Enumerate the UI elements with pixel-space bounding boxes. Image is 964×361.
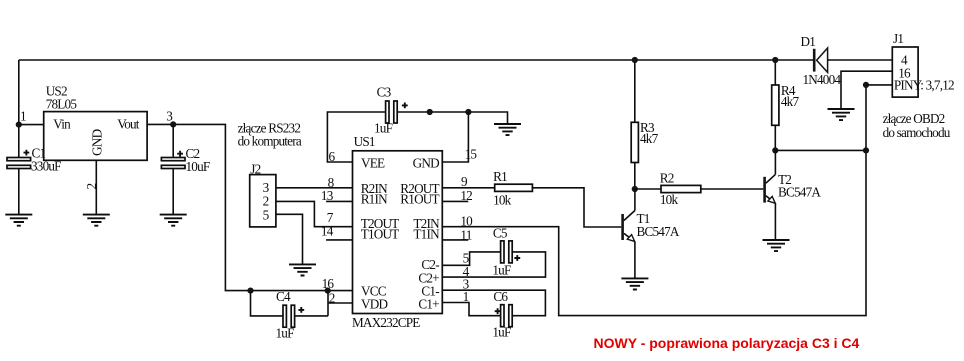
- wire R2 to T2 base: [701, 188, 764, 190]
- node junction R3 top: [632, 57, 638, 63]
- svg-text:1N4004: 1N4004: [803, 72, 842, 87]
- wire C3 to ground: [397, 112, 507, 124]
- svg-text:78L05: 78L05: [46, 97, 78, 112]
- resistor R4: [772, 60, 800, 150]
- wire U1 pin10 T2IN to K-line: [442, 85, 866, 316]
- svg-text:J2: J2: [250, 162, 260, 177]
- wire U1 pin13 stub: [326, 200, 352, 202]
- ground under T1: [621, 278, 648, 289]
- svg-text:C3: C3: [377, 85, 392, 100]
- svg-text:1uF: 1uF: [374, 120, 393, 135]
- connector J2: [250, 162, 276, 227]
- node junction at pin15 branch: [465, 109, 471, 115]
- ground under C2: [160, 215, 187, 226]
- wire U1 pin6 VEE up to C3: [327, 112, 385, 162]
- wire D1 to J1: [828, 59, 893, 61]
- wire U1 pin9 to R1: [442, 187, 494, 189]
- svg-text:VEE: VEE: [361, 155, 385, 170]
- wire US2 pin1: [19, 124, 44, 126]
- svg-text:BC547A: BC547A: [637, 224, 680, 239]
- voltage regulator US2 78L05: [20, 83, 173, 189]
- node junction at C4 left: [247, 288, 253, 294]
- wire T1 emitter to ground: [634, 242, 636, 279]
- svg-text:Vin: Vin: [53, 116, 71, 131]
- svg-text:do komputera: do komputera: [238, 134, 302, 149]
- connector J1: [892, 31, 954, 97]
- svg-text:GND: GND: [90, 129, 105, 155]
- wire T2 collector node to K-line: [775, 149, 866, 151]
- svg-text:10uF: 10uF: [186, 159, 210, 174]
- ground under J1: [828, 109, 855, 120]
- svg-text:MAX232CPE: MAX232CPE: [352, 315, 420, 330]
- wire J2 pin3 to U1 pin8: [276, 187, 353, 189]
- svg-text:16: 16: [322, 276, 335, 291]
- svg-text:3: 3: [166, 108, 173, 123]
- svg-text:5: 5: [263, 207, 270, 222]
- svg-text:1uF: 1uF: [276, 326, 295, 341]
- capacitor C5: [492, 225, 520, 277]
- ground right of C3: [494, 124, 521, 135]
- svg-text:R1IN: R1IN: [361, 192, 388, 207]
- svg-text:1uF: 1uF: [492, 263, 511, 278]
- svg-text:złącze OBD2: złącze OBD2: [883, 111, 945, 126]
- svg-text:1: 1: [20, 108, 26, 123]
- svg-text:10k: 10k: [660, 192, 679, 207]
- svg-text:R1OUT: R1OUT: [400, 192, 439, 207]
- wire top 12V rail: [19, 59, 814, 61]
- svg-text:9: 9: [461, 174, 468, 189]
- wire C4 right vertical: [327, 291, 329, 316]
- svg-text:GND: GND: [413, 155, 439, 170]
- wire left vertical from rail to C1: [18, 60, 20, 158]
- svg-text:US1: US1: [354, 134, 375, 149]
- wire J1 pin16 to ground: [841, 71, 892, 109]
- svg-text:R1: R1: [493, 169, 507, 184]
- svg-text:1uF: 1uF: [492, 325, 511, 340]
- wire U1 pin15 GND up: [442, 112, 468, 162]
- svg-text:NOWY - poprawiona polaryzacja: NOWY - poprawiona polaryzacja C3 i C4: [594, 335, 860, 351]
- svg-text:15: 15: [465, 147, 478, 162]
- svg-text:D1: D1: [801, 34, 816, 49]
- wire 5V net: Vout to MAX232 VCC: [147, 124, 352, 290]
- wire U1 pin11 stub: [442, 239, 468, 241]
- node junction at US2 pin1: [16, 122, 22, 128]
- capacitor C6: [492, 289, 512, 340]
- svg-text:T1IN: T1IN: [413, 226, 440, 241]
- ground under T2: [763, 240, 790, 251]
- resistor R1: [493, 169, 532, 208]
- svg-text:10k: 10k: [493, 193, 512, 208]
- capacitor C3: [374, 85, 408, 136]
- wire J2 pin5 to ground: [276, 214, 303, 264]
- node junction at C4 right: [325, 288, 331, 294]
- wire C4 left drop: [251, 291, 283, 316]
- wire C5 to U1 pin4: [442, 252, 545, 277]
- node junction on K-line at T2 collector: [863, 147, 869, 153]
- node junction R3 bottom / R2: [632, 186, 638, 192]
- svg-text:C1+: C1+: [418, 296, 439, 311]
- node junction R4 top: [772, 57, 778, 63]
- capacitor C1: [7, 145, 61, 214]
- IC U1 MAX232CPE: [321, 134, 477, 330]
- wire J2 pin2 to U1 pin7: [276, 201, 353, 226]
- wire T2 collector: [774, 150, 776, 174]
- wire R3 to R2: [635, 188, 661, 190]
- svg-text:T1OUT: T1OUT: [361, 226, 399, 241]
- wire VDD pin2: [328, 302, 353, 304]
- ground under US2 pin2: [83, 215, 110, 226]
- svg-text:4k7: 4k7: [781, 94, 800, 109]
- wire R1 to T1 base: [532, 188, 621, 227]
- svg-text:VDD: VDD: [361, 296, 387, 311]
- svg-text:C6: C6: [493, 289, 508, 304]
- node junction R4 bottom / T2 collector: [772, 147, 778, 153]
- svg-text:J1: J1: [893, 31, 903, 46]
- svg-text:4k7: 4k7: [640, 131, 659, 146]
- wire J1 pin row to K-line node: [866, 84, 892, 86]
- node junction at C2: [170, 121, 176, 127]
- svg-text:C5: C5: [493, 225, 508, 240]
- transistor T2: [765, 172, 822, 203]
- wire U1 pin3 to C6 right: [442, 290, 545, 316]
- resistor R2: [660, 171, 701, 207]
- ground under J2: [289, 264, 316, 275]
- wire T1 collector: [634, 189, 636, 211]
- svg-text:R2: R2: [660, 171, 674, 186]
- wire U1 pin14 stub: [326, 239, 352, 241]
- transistor T1: [623, 211, 680, 242]
- ground under C1: [5, 215, 32, 226]
- wire U1 pin5 to C5: [442, 252, 500, 265]
- svg-text:do samochodu: do samochodu: [883, 125, 951, 140]
- svg-text:14: 14: [321, 223, 334, 238]
- wire US2 pin2 stem: [95, 160, 97, 214]
- node junction on C3 net: [427, 109, 433, 115]
- wire U1 pin1 to C6 left: [442, 303, 500, 316]
- svg-text:BC547A: BC547A: [778, 185, 821, 200]
- resistor R3: [631, 60, 658, 189]
- diode D1 1N4004: [801, 34, 842, 87]
- wire T2 emitter to ground: [774, 203, 776, 239]
- node junction at J1 pin row: [863, 82, 869, 88]
- capacitor C2: [161, 124, 209, 214]
- wire U1 pin12 stub: [442, 200, 468, 202]
- svg-text:PINY: 3,7,12: PINY: 3,7,12: [894, 78, 954, 93]
- capacitor C4: [276, 289, 329, 341]
- svg-text:Vout: Vout: [117, 116, 140, 131]
- svg-text:C4: C4: [276, 289, 291, 304]
